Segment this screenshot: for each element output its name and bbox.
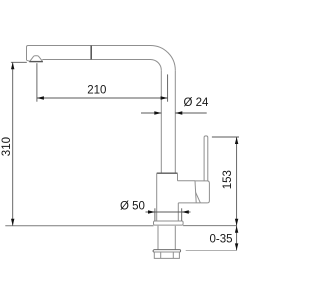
dim 210 line: [37, 97, 168, 99]
svg-text:0-35: 0-35: [210, 233, 233, 245]
spout bottom line: [42, 59, 150, 61]
dim d50 extension left: [154, 208, 156, 220]
dim d24 line right: [175, 112, 206, 114]
dim 210 extension right (pipe centre): [167, 74, 169, 101]
arrow d50 left: [148, 210, 155, 213]
dim 153 line: [236, 137, 238, 226]
shank left wall: [157, 226, 159, 250]
base flange: [154, 221, 184, 225]
nut facet right: [172, 252, 174, 258]
svg-text:Ø 50: Ø 50: [120, 201, 145, 213]
dim 210 extension left (aerator centre): [36, 63, 38, 101]
dim 310 line: [12, 62, 14, 226]
arrow 153 bottom: [235, 219, 238, 226]
body shoulder: [157, 172, 178, 174]
arrow d24 right: [175, 111, 182, 114]
spout left edge: [27, 46, 29, 61]
nut facet left: [160, 252, 162, 258]
arrow 0-35 bottom: [235, 243, 238, 250]
handle cartridge block: [195, 181, 209, 203]
handle cap diagonal: [196, 193, 201, 203]
deck line right segment: [183, 225, 237, 227]
washer plate: [153, 250, 181, 252]
deck line left segment: [5, 225, 153, 227]
mounting nut: [154, 252, 179, 258]
arrow 310 top: [11, 62, 14, 69]
dim d50 line: [146, 211, 191, 213]
aerator base line: [29, 61, 43, 63]
dim d50 extension right: [181, 208, 183, 220]
svg-text:310: 310: [1, 137, 13, 156]
dim 153 extension line: [212, 136, 239, 138]
spout bend inner curve: [151, 60, 162, 71]
pipe right wall: [174, 70, 176, 173]
arrow 310 bottom: [11, 219, 14, 226]
neck top line: [178, 180, 196, 182]
handle rod top cap: [204, 136, 208, 138]
spout top line: [28, 45, 151, 47]
arrow 210 left: [37, 96, 44, 99]
body right wall lower: [177, 203, 179, 221]
dim d24 line left: [141, 112, 161, 114]
dim 0-35 line: [236, 226, 238, 251]
neck bottom line: [178, 202, 200, 204]
arrow 153 top: [235, 137, 238, 144]
aerator dome: [27, 56, 43, 62]
arrow d50 right: [182, 210, 189, 213]
spout bend outer curve: [151, 46, 176, 71]
dim 310 extension line: [11, 61, 27, 63]
arrow d24 left: [154, 111, 161, 114]
spout joint tick: [90, 46, 92, 60]
body right wall upper: [177, 173, 179, 181]
svg-text:Ø 24: Ø 24: [184, 97, 210, 109]
handle cap left edge: [195, 181, 196, 203]
handle rod left edge: [203, 138, 205, 182]
arrow 210 right: [161, 96, 168, 99]
pipe left wall: [160, 70, 162, 173]
svg-text:153: 153: [222, 170, 234, 189]
body left wall: [156, 173, 158, 221]
handle rod right edge: [207, 138, 209, 182]
counter underside line: [186, 249, 237, 251]
arrow 0-35 top: [235, 226, 238, 233]
svg-text:210: 210: [87, 85, 106, 97]
shank right wall: [174, 226, 176, 250]
